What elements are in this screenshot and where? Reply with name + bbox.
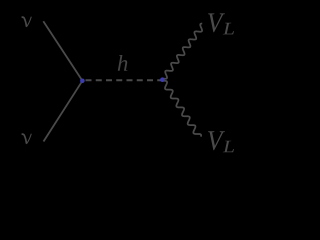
fermion line nu (bottom-left) [44,81,83,142]
fermion line nu (top-left) [43,21,82,81]
label L subscript (bottom-right) [223,141,234,153]
label V (bottom-right) [208,131,225,150]
boson wavy line V_L (bottom-right) [163,81,201,137]
vertex (left, blue) [80,79,85,84]
label h (higgs) [118,55,128,71]
label V (top-right) [208,13,225,32]
label nu (top-left) [22,17,32,27]
higgs propagator h (dashed line) [86,79,163,81]
label nu (bottom-left) [22,134,32,144]
boson wavy line V_L (top-right) [163,24,202,79]
vertex (right, blue) [160,77,165,82]
label L subscript (top-right) [223,23,234,35]
